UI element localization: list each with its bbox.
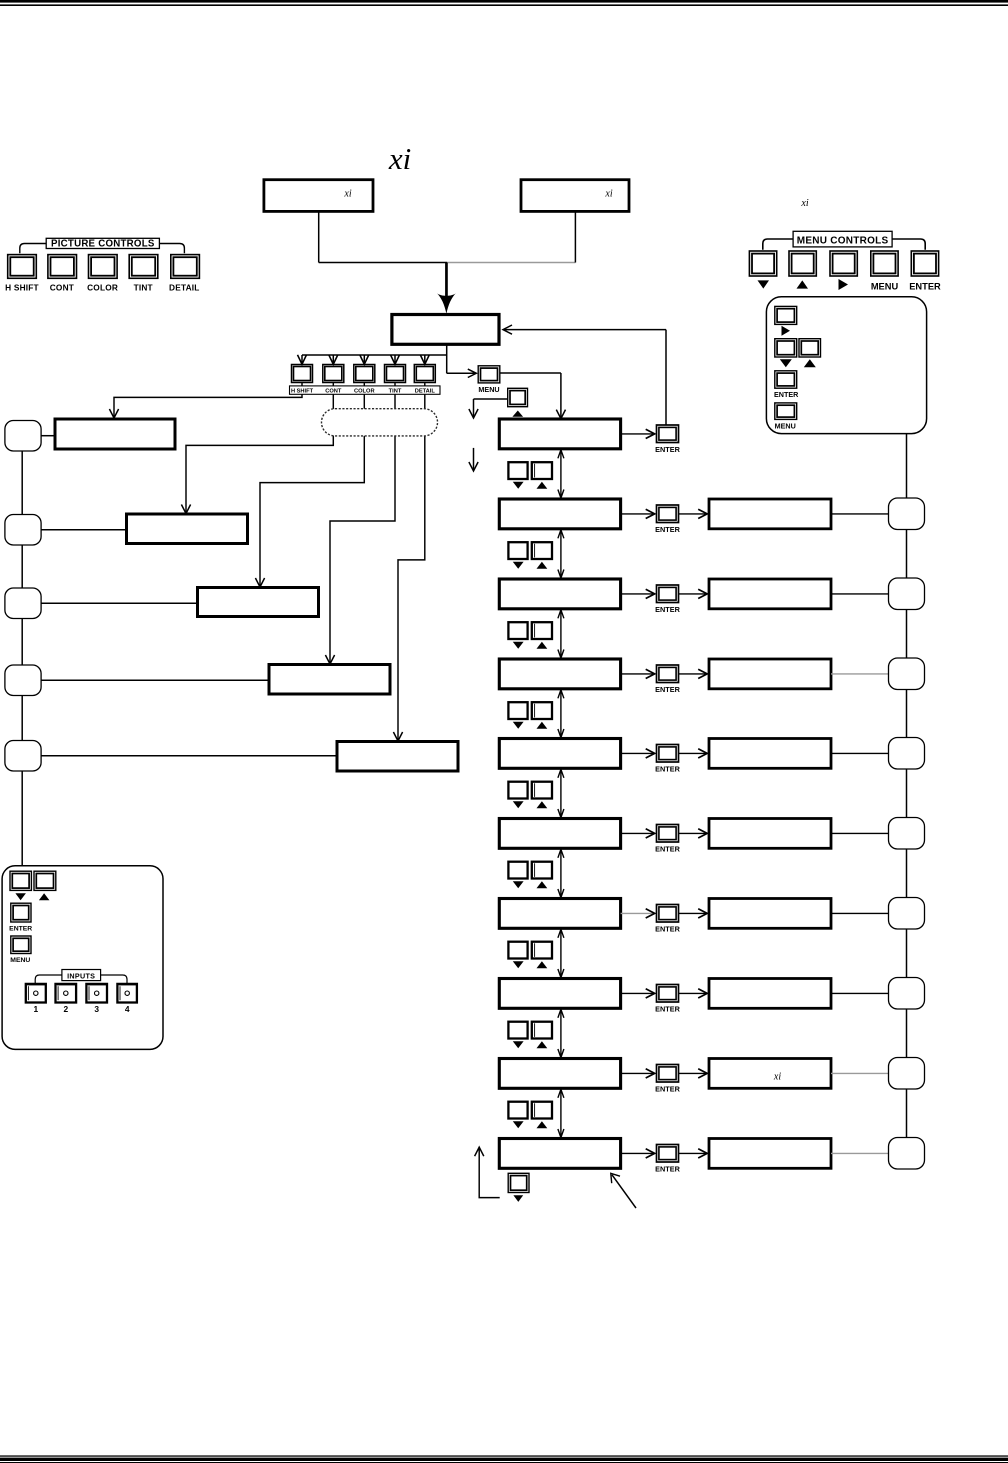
- svg-text:MENU: MENU: [775, 421, 796, 430]
- svg-text:ENTER: ENTER: [655, 925, 680, 934]
- svg-text:xi: xi: [773, 1071, 781, 1082]
- svg-text:MENU: MENU: [871, 282, 899, 292]
- svg-text:CONT: CONT: [50, 283, 74, 293]
- svg-text:3: 3: [94, 1004, 99, 1014]
- svg-text:ENTER: ENTER: [909, 282, 941, 292]
- svg-text:xi: xi: [343, 189, 351, 200]
- svg-text:DETAIL: DETAIL: [415, 388, 436, 394]
- svg-text:INPUTS: INPUTS: [67, 971, 95, 980]
- svg-text:TINT: TINT: [134, 283, 153, 293]
- svg-text:ENTER: ENTER: [655, 845, 680, 854]
- svg-text:TINT: TINT: [389, 388, 402, 394]
- svg-text:H SHIFT: H SHIFT: [5, 283, 39, 293]
- svg-text:PICTURE CONTROLS: PICTURE CONTROLS: [51, 239, 155, 250]
- svg-text:MENU: MENU: [10, 957, 30, 964]
- svg-text:4: 4: [125, 1004, 130, 1014]
- svg-text:ENTER: ENTER: [655, 605, 680, 614]
- svg-text:ENTER: ENTER: [774, 390, 799, 399]
- svg-text:MENU CONTROLS: MENU CONTROLS: [797, 235, 889, 246]
- svg-text:xi: xi: [800, 198, 808, 209]
- svg-text:CONT: CONT: [325, 388, 342, 394]
- svg-text:COLOR: COLOR: [87, 283, 118, 293]
- svg-text:ENTER: ENTER: [655, 1165, 680, 1174]
- svg-text:1: 1: [33, 1004, 38, 1014]
- svg-text:2: 2: [63, 1004, 68, 1014]
- svg-text:ENTER: ENTER: [655, 1085, 680, 1094]
- svg-text:ENTER: ENTER: [655, 685, 680, 694]
- svg-text:ENTER: ENTER: [655, 445, 680, 454]
- svg-text:xi: xi: [604, 189, 612, 200]
- svg-text:ENTER: ENTER: [655, 1005, 680, 1014]
- svg-text:COLOR: COLOR: [354, 388, 375, 394]
- svg-text:H SHIFT: H SHIFT: [291, 388, 314, 394]
- svg-text:DETAIL: DETAIL: [169, 283, 200, 293]
- svg-text:ENTER: ENTER: [655, 525, 680, 534]
- svg-text:ENTER: ENTER: [655, 765, 680, 774]
- svg-text:ENTER: ENTER: [9, 926, 32, 933]
- svg-text:xi: xi: [388, 141, 411, 176]
- svg-text:MENU: MENU: [478, 385, 499, 394]
